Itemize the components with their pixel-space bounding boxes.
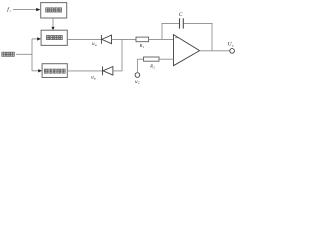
block phase-sensitive detector (41, 30, 67, 45)
wire box2 to diode Da (67, 38, 101, 40)
diode Db (103, 66, 113, 75)
wire vertical rail (31, 39, 33, 71)
op-amp U1 (174, 35, 200, 66)
wire feedback top (162, 22, 180, 24)
label ua (92, 42, 97, 47)
svg-text:C: C (179, 12, 183, 18)
resistor R2 (144, 57, 160, 61)
wire R2 to op-amp non-inverting input (159, 58, 174, 60)
label u2 (135, 80, 140, 85)
wire box3 to diode Db (67, 70, 102, 72)
svg-text:o: o (232, 44, 234, 48)
wire diode Db to junction (113, 70, 123, 72)
wire fr to box1 with arrowhead (13, 9, 37, 11)
resistor R1 (136, 37, 149, 42)
label R1 (139, 43, 145, 49)
svg-text:a: a (95, 43, 97, 47)
label Uo (228, 42, 234, 48)
wire rail to box2 with arrowhead (32, 38, 38, 40)
node output terminal (230, 49, 235, 54)
diode Da (101, 35, 111, 44)
wire op-amp output (200, 50, 230, 52)
node secondary-side label (2, 52, 15, 56)
wire feedback left vertical (161, 23, 163, 39)
svg-text:2: 2 (138, 81, 140, 85)
wire terminal up to R2 (136, 59, 138, 73)
wire rail to box3 with arrowhead (32, 70, 39, 72)
node fr input label (7, 6, 11, 13)
wire diode Da to R1 (112, 38, 137, 40)
wire box1 down to box2 with arrowhead (52, 18, 54, 28)
svg-text:b: b (94, 76, 96, 80)
wire secondary-side to rail (16, 53, 32, 55)
block 90-degree phase shifter (41, 3, 67, 18)
node reference terminal (135, 73, 140, 78)
wire R1 to op-amp inverting input (149, 38, 174, 40)
capacitor C (180, 18, 184, 28)
op-amp minus sign (175, 37, 178, 39)
label R2 (149, 64, 155, 70)
block low-pass filter (42, 64, 67, 78)
wire feedback right vertical (211, 23, 213, 50)
label ub (91, 75, 96, 80)
wire junction vertical from lower branch (121, 39, 123, 71)
